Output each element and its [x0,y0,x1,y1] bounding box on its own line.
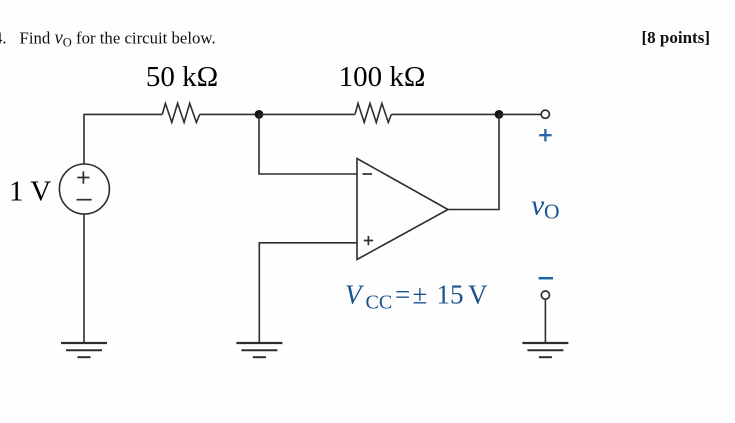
label vO (output voltage) [531,190,559,224]
op-amp non-inverting input plus sign [364,236,373,245]
output terminal open circle [541,110,549,118]
wire: source top to R1 left lead [84,114,162,164]
svg-text:50 kΩ: 50 kΩ [146,61,218,93]
wire: R2 right lead to node B [391,113,499,115]
wire: node A to R2 left lead [259,113,355,115]
node B junction dot [495,110,504,119]
label minus (output polarity, lower terminal) [539,277,553,280]
svg-text:15: 15 [437,280,464,310]
wire: node A down and right to inverting input [259,114,357,174]
svg-text:CC: CC [366,292,393,314]
svg-text:4.: 4. [0,29,7,48]
wire: node B to output terminal [499,113,541,115]
svg-text:V: V [468,280,488,310]
svg-text:100 kΩ: 100 kΩ [339,61,426,93]
svg-text:1 V: 1 V [9,176,51,208]
resistor R1 (50 kOhm) zigzag [162,103,199,122]
voltage source V1 circle [59,164,109,214]
problem statement text [0,28,216,50]
resistor R2 (100 kOhm) zigzag [355,103,391,122]
label plus (output polarity) [539,129,551,141]
svg-text:V: V [345,280,365,310]
svg-text:=: = [395,280,410,310]
wire: op-amp output to node B [448,114,499,209]
wire: R1 right lead to node A [200,113,259,115]
wire: lower terminal to ground 3 [544,300,546,344]
ground 3 (output reference) [522,343,568,357]
svg-text:±: ± [413,280,428,310]
voltage source minus sign [77,199,92,201]
op-amp inverting input minus sign [363,173,373,175]
node A junction dot [255,110,264,119]
svg-text:[8 points]: [8 points] [642,28,710,47]
svg-text:O: O [544,200,560,224]
wire: non-inverting input to ground 2 [259,243,357,343]
label VCC = +/- 15 V [345,280,488,314]
svg-text:Find vO for the circuit below.: Find vO for the circuit below. [20,28,216,50]
ground 1 (source) [61,343,107,357]
svg-text:v: v [531,190,544,222]
op-amp U1 triangle [357,159,448,260]
lower output terminal open circle [541,291,549,299]
wire: source bottom to ground 1 [83,214,85,343]
voltage source plus sign [77,171,89,183]
ground 2 (op-amp + input) [236,343,282,357]
